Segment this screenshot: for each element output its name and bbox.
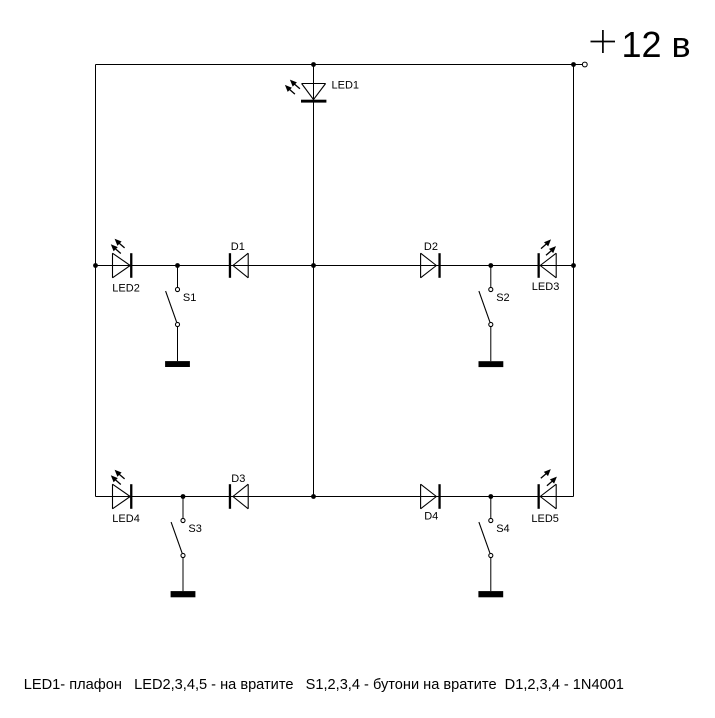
switch S2	[479, 266, 510, 362]
junction row2-right	[571, 263, 576, 268]
svg-text:D3: D3	[231, 473, 245, 485]
switch S4	[479, 497, 510, 592]
wire right vertical	[573, 65, 575, 497]
ground S1	[165, 361, 190, 367]
switch S1	[166, 266, 197, 362]
wire center vertical (LED1 branch)	[313, 65, 315, 497]
svg-text:LED1: LED1	[332, 79, 360, 91]
junction row2-center	[311, 263, 316, 268]
junction row4-S3	[181, 494, 186, 499]
wire row 2 horizontal	[96, 265, 574, 267]
LED LED4	[111, 470, 140, 525]
svg-text:S1: S1	[183, 292, 196, 304]
junction row4-S4	[488, 494, 493, 499]
diode D3	[229, 473, 248, 509]
wire row 4 horizontal	[96, 496, 574, 498]
svg-text:S2: S2	[496, 292, 509, 304]
diode D2	[421, 241, 441, 278]
svg-text:LED3: LED3	[532, 281, 560, 293]
ground S3	[171, 591, 196, 597]
svg-text:LED2: LED2	[112, 282, 140, 294]
junction top-center	[311, 62, 316, 67]
svg-text:LED1- плафон LED2,3,4,5 - на: LED1- плафон LED2,3,4,5 - на вратите S1,…	[24, 677, 624, 693]
LED LED2	[111, 239, 140, 295]
ground S4	[478, 591, 503, 597]
junction row2-S2	[488, 263, 493, 268]
LED LED3	[532, 239, 560, 293]
diode D4	[421, 484, 441, 522]
wire stub to +12V terminal	[574, 64, 583, 66]
svg-text:LED4: LED4	[112, 513, 140, 525]
label +12 в (text)	[622, 24, 691, 65]
svg-text:12 в: 12 в	[622, 24, 691, 65]
svg-text:D4: D4	[424, 511, 438, 523]
switch S3	[171, 497, 202, 592]
svg-text:S4: S4	[496, 523, 509, 535]
diode D1	[229, 241, 248, 278]
junction top-right	[571, 62, 576, 67]
junction row2-S1	[175, 263, 180, 268]
LED LED1 (плафон)	[285, 79, 359, 102]
caption (legend text)	[24, 677, 624, 693]
svg-text:S3: S3	[188, 523, 201, 535]
wire left vertical	[95, 65, 97, 497]
label +12 в (plus sign)	[591, 30, 616, 53]
svg-text:LED5: LED5	[531, 513, 559, 525]
svg-text:D2: D2	[424, 241, 438, 253]
wire top rail (+12V)	[96, 64, 574, 66]
junction row4-center	[311, 494, 316, 499]
terminal +12V (open circle)	[582, 62, 587, 67]
ground S2	[479, 361, 504, 367]
junction row2-left	[93, 263, 98, 268]
svg-text:D1: D1	[231, 241, 245, 253]
LED LED5	[531, 469, 559, 525]
